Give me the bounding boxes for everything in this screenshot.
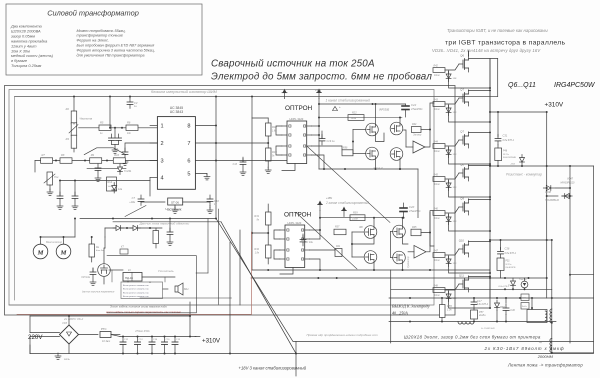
wire pin6 row [195,160,296,162]
emitter junction Q8 [489,196,491,198]
svg-text:M: M [37,250,44,257]
trimmer R11 Ток [47,172,53,185]
svg-text:C20: C20 [409,205,415,209]
svg-text:1к: 1к [100,132,103,135]
feedback transistor VT3 [98,264,111,277]
svg-text:R55: R55 [447,304,452,308]
inner frame top edge [15,96,498,98]
output diode VD50 [495,300,500,311]
svg-text:блокинг импульсный изолятор ШИ: блокинг импульсный изолятор ШИМ [151,90,218,94]
svg-text:R8: R8 [61,153,65,157]
svg-text:С13: С13 [139,339,144,341]
svg-text:С 10н: С 10н [307,241,314,244]
gate resistor R40 for Q6 [433,68,445,73]
svg-text:16В: 16В [453,154,457,156]
svg-text:датчик наличия напряжения: датчик наличия напряжения [82,291,115,294]
svg-text:Р52: Р52 [506,261,511,263]
emitter junction Q11 [489,307,491,309]
svg-text:5: 5 [187,172,190,178]
wire gate resistor to Q10 [445,249,459,255]
svg-text:ОПТРОН: ОПТРОН [284,212,312,219]
svg-text:три IGBT транзистора в паралле: три IGBT транзистора в параллель [445,40,565,47]
svg-text:IRF: IRF [359,226,363,229]
cap C15 near motors [92,268,94,272]
collector link Q11 [469,275,491,278]
svg-text:6.8н 678-1: 6.8н 678-1 [505,252,517,255]
svg-text:КТ: КТ [121,247,124,249]
svg-text:R7: R7 [42,153,46,157]
driver Q5b ch3 bottom [393,251,406,264]
IGBT transistor Q9 [459,199,469,215]
diagonal gate feed ch1 [307,146,390,223]
svg-text:C19 1н: C19 1н [327,140,336,143]
svg-text:6.8н 678-2: 6.8н 678-2 [477,304,489,306]
resistor R41 box vertical [335,249,342,257]
cluster connection wires [109,269,123,271]
svg-text:Р57: Р57 [479,311,484,314]
svg-text:HFA30PB120: HFA30PB120 [545,199,560,202]
small cap KT [120,249,128,254]
capacitor C9 [74,181,76,197]
output cap C40 [505,298,507,303]
transformer T2 lower winding [550,339,552,353]
R22 wire row [319,117,402,119]
wire from pin4 down [149,178,151,197]
svg-text:С13: С13 [233,163,238,166]
wire pin2 row [125,143,157,152]
bottom ground rail [30,353,594,355]
optocoupler U3 body [285,225,305,268]
svg-text:1: 1 [161,124,164,130]
svg-text:7: 7 [187,141,190,147]
gate resistor R42 for Q7 [433,144,445,149]
svg-text:Электрод до 5мм запросто. 6мм: Электрод до 5мм запросто. 6мм не пробова… [211,72,432,83]
diode pair wires [546,187,549,189]
svg-text:сеть: сеть [64,358,70,361]
info box: power transformer notes [6,4,202,75]
inner frame left edge [14,97,16,301]
wire y298 stub [140,297,232,299]
svg-text:M: M [60,250,67,257]
ground pin5 [195,174,207,175]
svg-text:Был опробован феррит ЕТD N87 г: Был опробован феррит ЕТD N87 германия [77,44,155,48]
driver Q2b pair B bottom [390,148,403,161]
R38 wire row ch2 [320,217,404,219]
svg-text:UC 3845: UC 3845 [170,106,183,110]
svg-text:Ш20Х28 Эколл, зазор 0.2мм без: Ш20Х28 Эколл, зазор 0.2мм без слоя бумаг… [404,335,541,340]
svg-text:1.8к: 1.8к [255,253,260,255]
svg-text:10ом: 10ом [434,109,440,111]
gate diode VD40 for Q10 [446,256,451,267]
svg-text:Усилитель: Усилитель [158,269,174,273]
output choke L3 [458,322,474,325]
svg-text:Лентая пожа -> трансформатор: Лентая пожа -> трансформатор [507,363,583,368]
svg-text:R14: R14 [108,181,113,184]
svg-text:4: 4 [161,176,164,182]
svg-text:Сварочный источник на ток 250А: Сварочный источник на ток 250А [211,59,375,70]
ground below C10 [209,205,211,208]
collector link Q9 [469,198,491,201]
gate diode VD36 for Q6 [446,71,451,82]
svg-text:5к: 5к [272,156,275,158]
gate resistor R37 ch2 [334,229,346,235]
capacitor C13 mid column [242,157,244,162]
capacitor C8 [59,181,61,197]
sense branch down [104,228,106,237]
rail connect 490-593 at y166 [490,165,594,167]
IGBT transistor Q6 [459,56,469,72]
emitter loop Q7 [449,135,490,165]
svg-text:4вт 5м: 4вт 5м [96,249,104,252]
resistor R31 chain2 [266,212,272,225]
collector link Q7 [469,89,491,92]
resistor R56 box [342,150,353,156]
emitter loop Q9 [449,202,490,232]
svg-text:10ом: 10ом [434,218,440,220]
svg-text:16В: 16В [453,187,457,189]
svg-text:C31: C31 [503,134,508,138]
resistor R10 on pin3 row [113,158,125,164]
svg-text:6: 6 [187,159,190,165]
svg-text:10ом: 10ом [351,117,357,120]
svg-text:Датчик тока первичной обмотки: Датчик тока первичной обмотки [139,222,190,226]
svg-text:R44: R44 [434,141,439,144]
resistor R4 vertical [71,135,77,148]
lower small cluster wires [60,180,150,182]
svg-text:Q6...Q11: Q6...Q11 [508,82,536,89]
capacitor C24 channel2 [302,234,304,240]
svg-text:VD36...VD41, 2х тн4148 на встр: VD36...VD41, 2х тн4148 на встречу друг д… [432,48,541,53]
svg-text:R43: R43 [434,99,439,102]
emitter junction Q7 [489,121,491,123]
buzzer BA1 [175,283,183,295]
svg-text:HCPL 3120: HCPL 3120 [290,117,304,121]
outer frame 1 [5,86,456,316]
svg-text:С16: С16 [176,339,181,341]
electrolytic C22 bars [402,105,409,107]
svg-text:10ом: 10ом [434,260,440,262]
electrolytic cap C12 [122,337,124,343]
relay box PD-46 [123,273,142,282]
svg-text:Бл2н: Бл2н [522,306,527,308]
svg-text:R2: R2 [66,107,70,111]
gate resistor R41 for Q7 [433,102,445,107]
C20 leads [403,203,405,208]
motor rail to sense row [74,219,76,238]
ground below chain1 [265,167,271,173]
gate diode VD37 for Q7 [446,105,451,116]
svg-text:Q6: Q6 [460,54,464,58]
svg-text:ПД-46: ПД-46 [125,276,133,280]
svg-text:Если греется снизить ток: Если греется снизить ток [123,292,149,294]
+310V rail bottom continues [195,336,196,338]
svg-text:Резистанс - коммутар: Резистанс - коммутар [506,173,542,177]
rectifier diode VD45 in circle [521,281,528,288]
svg-text:1 канал стабилизированный: 1 канал стабилизированный [326,98,371,102]
IC pin 1 stub [150,125,157,127]
svg-text:Прямая нttр профдвижение-елмаш: Прямая нttр профдвижение-елмаш подробнее… [307,333,379,337]
node bend pin3 left [34,161,36,173]
IGBT transistor Q10 [459,241,469,257]
series resistor R44a ch1 [412,127,422,133]
svg-text:12в: 12в [118,188,123,191]
gate resistor R45 for Q10 [433,253,445,258]
driver Q3 ch2 top [364,226,377,239]
PTC resistor [79,334,99,336]
gate diode VD38 for Q8 [446,180,451,191]
svg-text:IRF9540: IRF9540 [373,167,384,171]
snubber R52 box [497,258,504,271]
svg-text:R22: R22 [352,111,357,114]
svg-text:Rн: Rн [96,246,100,249]
rectifier diode VD44 [511,278,516,289]
svg-text:HFA30PB120: HFA30PB120 [561,182,576,185]
aux winding box [527,310,547,323]
svg-text:Q9: Q9 [460,197,464,201]
supply arrow marker x284 [282,90,287,99]
electrolytic cap C16 [174,337,176,343]
svg-text:10ом: 10ом [434,295,440,297]
electrolytic C20 bars [400,207,407,209]
gate resistor R43 for Q8 [433,177,445,182]
svg-text:R32: R32 [254,248,259,251]
optocoupler U2 body [287,121,307,164]
IGBT transistor Q7 [459,90,469,106]
wire gate resistor to Q6 [445,64,459,70]
chain wires x268 [267,118,269,123]
channel2 bottom rail [252,269,490,271]
current sense wire long [80,218,216,220]
svg-text:С14: С14 [153,338,158,341]
svg-text:C7: C7 [132,196,136,200]
svg-text:R45: R45 [434,174,439,177]
output top rail [389,297,594,299]
IC pin 2 stub [150,142,157,144]
svg-text:2х 4МРС 06-2: 2х 4МРС 06-2 [63,317,84,321]
svg-text:C22: C22 [411,103,417,107]
IGBT transistor Q11 [459,276,469,292]
svg-text:КН-Е20РВНВ: КН-Е20РВНВ [503,157,516,159]
wire x430 link ch2 [429,212,431,233]
diode VD7 TL431 [118,164,123,175]
svg-text:IRF530Б: IRF530Б [379,108,390,112]
feedback cluster outline box [107,256,196,313]
svg-text:40...250А: 40...250А [392,311,408,316]
svg-text:TL431: TL431 [124,169,132,173]
collector top stub x497.7 [497,59,499,97]
rail connect 490-546 at y112 [490,111,547,113]
bridge rectifier VD5 [60,325,79,344]
svg-text:С15: С15 [166,339,171,341]
mid vertical x230 down [229,242,231,354]
VD44 lead down [512,288,514,291]
svg-text:10ом: 10ом [434,75,440,77]
gate node ch1 [376,132,385,142]
svg-text:Вентилятор: Вентилятор [46,240,63,244]
resonator ST06 box [168,198,183,205]
driver Q1b pair B top [390,122,403,135]
wire pin8 chain top [252,117,268,119]
diode VD9 [113,226,124,231]
svg-text:C36: C36 [505,247,510,251]
svg-text:16В: 16В [453,78,457,80]
snubber chain2 hang wire [500,240,502,250]
svg-text:трансформатор тоньше: трансформатор тоньше [77,34,123,38]
bottom rail channel1 [319,168,418,170]
svg-text:бл. пер: бл. пер [508,285,516,287]
vertical mid rail x252 [251,97,253,271]
diagonal gate feed ch2 [296,213,357,270]
resistor R18 vertical chain [266,123,272,136]
mains left down wire [29,345,31,354]
wire pin1 row [79,127,158,129]
link 570-592 at y274.7 [570,274,594,276]
transformer bottom line [552,352,594,354]
driver buffer triangle ch1 [413,141,425,153]
emitter loop Q7 [449,93,490,123]
mains left vertical [29,337,31,354]
right edge rail x592.6 [593,166,595,353]
svg-text:МВ2: МВ2 [500,306,506,309]
trimmer R3 vertical [71,123,77,136]
svg-text:Q7: Q7 [460,88,464,92]
svg-text:этот кабель только парами пере: этот кабель только парами переплетать ка… [106,310,182,314]
VD45 leads [524,278,526,281]
collector link Q8 [469,164,491,167]
thermal sensor wires down [127,281,129,282]
svg-text:10ом: 10ом [352,217,358,220]
bus trapezoid wire [84,148,126,155]
svg-text:Частота: Частота [80,117,93,121]
electrolytic cap C14 [151,337,153,343]
svg-text:Сумматор: Сумматор [408,256,410,268]
resistor R5 [99,125,111,131]
svg-text:+310V: +310V [545,102,564,109]
emitter loop Q10 [449,244,490,274]
svg-text:2х КЗ0-1Вх7 89волт х 1мкф: 2х КЗ0-1Вх7 89волт х 1мкф [484,346,565,351]
svg-text:+: + [339,105,341,109]
triangle wires ch1 [406,146,413,148]
svg-text:ST 06: ST 06 [171,200,179,204]
svg-text:2 канал стабилизированный: 2 канал стабилизированный [325,201,369,205]
svg-text:16В: 16В [453,112,457,114]
svg-text:ВА1: ВА1 [184,288,189,291]
driver buffer triangle ch2 [414,246,426,259]
channel1 rail [318,99,320,170]
motor supply wires [40,237,42,244]
svg-text:16В: 16В [453,263,457,265]
collector link Q7 [469,131,491,134]
resistor R2 vertical top-left [71,111,77,124]
vertical rail x216 [215,97,217,219]
svg-text:R10: R10 [114,153,119,157]
svg-text:R45: R45 [412,226,417,229]
wire pair second line [113,221,221,223]
ground below R11 [47,189,53,195]
capacitor C10 [207,195,213,205]
right vertical rail x490 [489,59,491,298]
svg-text:VD5: VD5 [62,321,68,325]
svg-text:R4: R4 [66,137,70,141]
resistor R55 output [440,305,446,318]
svg-text:+С40: +С40 [509,309,515,312]
svg-text:Затвор: Затвор [413,135,422,137]
vertical x296 below shelf [295,342,297,377]
diode row wire [105,227,162,229]
diode VD48 right column [562,194,573,199]
resistor R22 box [348,115,364,121]
svg-text:10ом: 10ом [434,184,440,186]
svg-text:R56: R56 [343,147,348,150]
feedback wires [104,237,106,248]
resistor P57 output [471,310,478,319]
aux symbol triangle ch1 [333,107,338,111]
box snub R61 [521,303,529,310]
wire gate resistor to Q8 [445,173,459,179]
capacitor C6 [95,164,101,174]
svg-text:+18V 3 канал стабилизированный: +18V 3 канал стабилизированный [239,366,307,371]
rail x551.8 upper segment [547,239,552,241]
collector top link Q6 [469,58,498,60]
optocoupler U2 pins [289,125,291,127]
svg-text:Q8: Q8 [460,163,464,167]
svg-text:Q10: Q10 [459,239,465,243]
svg-text:Если греется снизить ток: Если греется снизить ток [123,289,149,291]
wire gate resistor to Q7 [445,98,459,104]
wire vref row [87,168,126,170]
gate diode VD37 for Q7 [446,147,451,158]
svg-text:R37: R37 [335,226,340,229]
aux winding hang wire [531,298,533,310]
gray frame bottom line2 [9,304,230,306]
rail connect 490-546 at y240 [490,239,547,241]
svg-text:Ток: Ток [54,175,59,179]
svg-text:+10м: +10м [129,201,135,204]
DC bus top rail [120,336,200,338]
outer frame 2 [9,90,434,306]
wire gate resistor to Q11 [445,284,459,290]
svg-text:R6: R6 [127,121,131,125]
svg-text:1.8к: 1.8к [272,131,277,133]
svg-text:8к: 8к [257,220,260,222]
vertical drop x418 ch1 to ch2 [417,169,419,218]
optocoupler U3 pins [287,229,289,231]
wires opto2 right pins [310,229,321,231]
resistor R9 on pin3 row [90,158,102,164]
vertical rail x110 from top frame [109,97,111,128]
resistor R19 vertical chain [266,148,272,161]
svg-text:+18V: +18V [315,88,321,92]
capacitor C7 electrolytic [138,195,144,205]
opto2 bottom exit wire [280,268,293,275]
svg-text:6.8н 678-1: 6.8н 678-1 [503,139,515,142]
wire gate resistor to Q7 [445,140,459,146]
snubber chain2 bottom wire [500,271,502,279]
driver pair ch2 wires [352,231,364,233]
svg-text:2х 1N5819НВ: 2х 1N5819НВ [480,328,495,330]
resistor R7 on pin3 row [41,158,53,164]
fan motor M2 [56,244,71,259]
wire opto1 input from pin6 [282,164,295,171]
right column vertical x570 [569,166,571,343]
resistor R14 box [107,177,117,191]
svg-text:2мк5н: 2мк5н [478,315,486,317]
svg-text:47мк450v: 47мк450v [409,209,421,213]
capacitor C17 output [473,298,475,302]
svg-text:R48: R48 [434,285,439,288]
mains wires [30,332,60,334]
resistor R32 chain2 [266,245,272,258]
